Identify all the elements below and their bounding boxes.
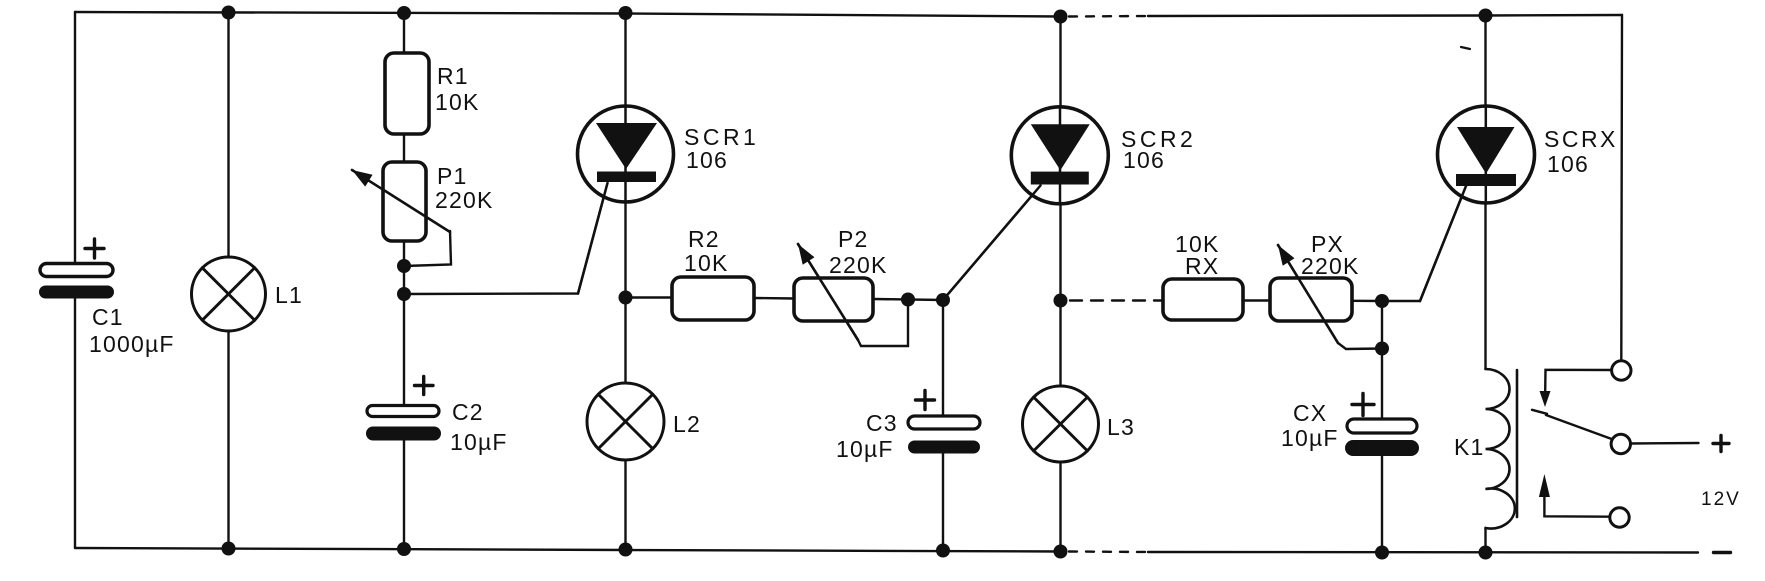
svg-text:RX: RX (1185, 253, 1219, 279)
svg-text:220K: 220K (829, 252, 888, 278)
svg-text:10µF: 10µF (836, 436, 894, 462)
svg-text:C1: C1 (92, 304, 124, 330)
svg-text:106: 106 (1547, 151, 1589, 177)
svg-text:10K: 10K (435, 89, 480, 115)
svg-text:L2: L2 (673, 411, 701, 437)
svg-text:P2: P2 (838, 226, 869, 252)
svg-text:R1: R1 (437, 63, 469, 89)
svg-text:10µF: 10µF (450, 429, 508, 455)
svg-text:C3: C3 (866, 410, 898, 436)
svg-text:K1: K1 (1454, 434, 1485, 460)
svg-text:C2: C2 (452, 399, 484, 425)
svg-text:R2: R2 (688, 226, 720, 252)
svg-text:220K: 220K (1301, 253, 1360, 279)
svg-text:CX: CX (1293, 400, 1327, 426)
svg-text:1000µF: 1000µF (89, 331, 175, 357)
svg-text:10K: 10K (684, 250, 729, 276)
svg-text:220K: 220K (435, 187, 494, 213)
svg-text:P1: P1 (437, 163, 468, 189)
svg-text:106: 106 (686, 147, 728, 173)
svg-text:106: 106 (1123, 147, 1165, 173)
svg-text:10µF: 10µF (1281, 425, 1339, 451)
svg-text:L3: L3 (1107, 414, 1135, 440)
svg-text:SCRX: SCRX (1544, 126, 1618, 152)
svg-text:L1: L1 (275, 282, 303, 308)
svg-text:12V: 12V (1701, 489, 1741, 510)
